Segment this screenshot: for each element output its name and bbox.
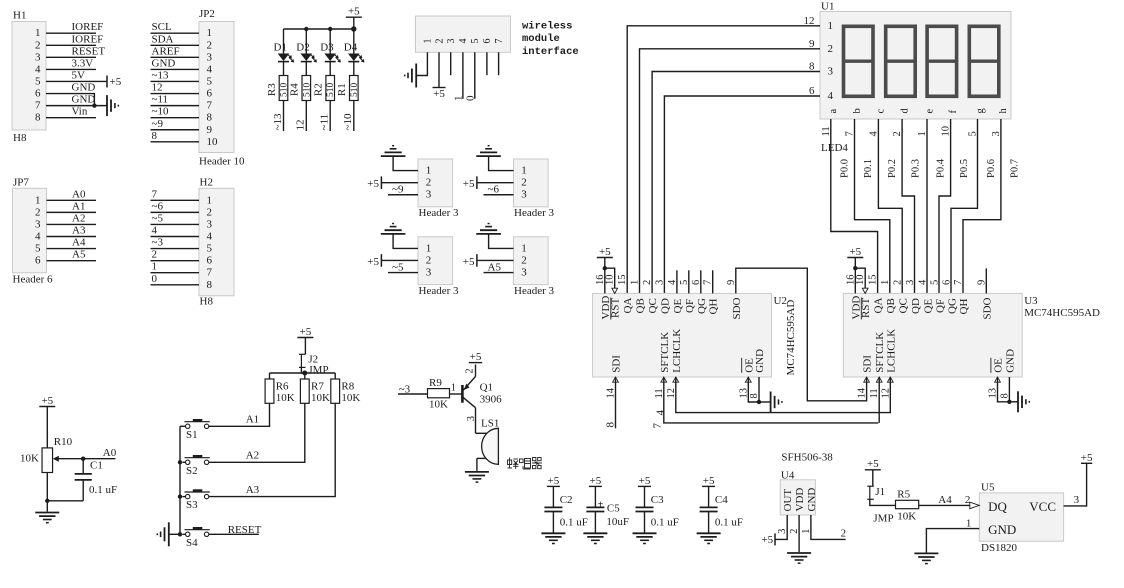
U2 pin number 6 [691,280,708,314]
svg-text:A0: A0 [103,447,117,459]
svg-text:2: 2 [426,177,432,189]
svg-text:0: 0 [152,273,158,285]
+5 supply at Header3 block 4 pin 2 [463,254,477,268]
JP7 pin 1 wire A0 [35,188,96,206]
H2 pin 3 wire ~5 [151,212,213,230]
+5 supply at U3 VDD [847,246,863,294]
svg-text:8: 8 [35,112,41,124]
resistor R8 10K [331,373,361,404]
svg-text:1: 1 [35,194,41,206]
svg-text:2: 2 [521,177,527,189]
svg-text:1: 1 [152,261,158,273]
svg-text:1: 1 [521,165,527,177]
svg-text:R5: R5 [897,489,910,501]
junction rail at S2 [178,460,182,464]
JP7 pin 4 wire A3 [35,225,96,243]
jumper J1 JMP [867,486,895,524]
resistor R9 10K [428,377,450,410]
svg-text:+5: +5 [639,475,651,487]
svg-text:JMP: JMP [308,364,328,376]
svg-text:JP7: JP7 [13,176,29,188]
svg-text:A3: A3 [72,225,86,237]
svg-text:9: 9 [809,38,815,50]
svg-text:module: module [522,33,560,45]
svg-text:10K: 10K [429,398,448,410]
U1 segment pin f number 10 wire net P0.5 [939,110,970,294]
svg-text:VDD: VDD [794,488,806,512]
H1 pin 2 wire IOREF [35,33,103,51]
svg-text:~5: ~5 [152,212,164,224]
U4 pin name GND [801,488,818,534]
svg-text:P0.3: P0.3 [911,159,922,178]
wire Header3 block 2 pin 1 [489,156,514,171]
+5 supply at C3 [638,475,651,507]
svg-text:DQ: DQ [988,499,1007,514]
H2 pin 8 wire 0 [151,273,213,291]
wireless module pin 4 [458,39,469,44]
junction LED bus at D2 [304,27,308,31]
wire net A3 [209,403,335,496]
svg-text:H2: H2 [200,176,213,188]
ground at Header3 block 2 pin 1 [476,146,501,156]
svg-text:5: 5 [35,75,41,87]
capacitor C4 0.1 uF [700,494,743,532]
JP2 pin 4 wire GND [151,57,213,75]
wire U2 OE and GND to ground [748,377,770,402]
ground at C5 [583,533,607,543]
svg-text:12: 12 [804,15,815,27]
svg-text:VCC: VCC [1029,499,1056,514]
svg-text:RST: RST [860,298,872,318]
H1 pin 6 wire GND [35,82,95,106]
U2 pin name SDO [726,280,743,320]
svg-text:3: 3 [35,218,41,230]
svg-text:2: 2 [35,206,41,218]
svg-text:P0.2: P0.2 [887,159,898,178]
wire net ~10 [342,101,354,132]
svg-text:1: 1 [207,194,213,206]
svg-text:QH: QH [708,299,720,315]
svg-text:+5: +5 [433,88,445,100]
wire net A0 [83,447,117,459]
svg-text:QG: QG [696,298,708,314]
svg-text:Header 10: Header 10 [199,156,245,168]
svg-text:~13: ~13 [152,69,169,81]
svg-text:Header 3: Header 3 [419,207,460,219]
U2 pin number 13 [738,358,755,399]
svg-text:OUT: OUT [782,489,794,512]
svg-text:3: 3 [1074,494,1080,506]
+5 supply at U5 VCC [1081,452,1093,464]
svg-text:2: 2 [465,368,476,373]
svg-text:6: 6 [482,39,493,44]
wire net ~11 [319,101,331,132]
svg-text:9: 9 [207,124,213,136]
svg-text:4: 4 [35,231,41,243]
wire U2 QF stub [688,270,690,293]
svg-text:QD: QD [910,298,922,314]
svg-text:QB: QB [885,298,897,313]
connector Header 3 block 2 [514,159,555,219]
svg-text:A4: A4 [938,494,952,506]
U3 pin number 10 [855,275,872,319]
svg-text:510: 510 [302,83,312,98]
U1 segment pin h number 3 wire net P0.7 [963,108,1020,294]
U2 pin number 1 [630,280,647,314]
svg-text:15: 15 [868,275,879,286]
svg-text:QF: QF [934,299,946,313]
wireless module pin 3 [446,39,457,44]
wire U2 RST to +5 [605,268,618,293]
U5 DQ pin number 2 [965,494,971,506]
svg-text:0.1 uF: 0.1 uF [89,484,117,496]
connector Header 3 block 3 [418,237,459,297]
svg-text:h: h [998,108,1009,114]
label wireless module interface [522,20,579,57]
H1 pin 4 wire 3.3V [35,57,96,75]
wire wireless pin 3 [450,52,452,75]
svg-text:MC74HC595AD: MC74HC595AD [1024,307,1100,319]
svg-text:8: 8 [809,61,815,73]
junction rail at S3 [178,494,182,498]
svg-text:1: 1 [426,165,432,177]
svg-text:SCL: SCL [152,21,172,33]
svg-text:+5: +5 [470,351,482,363]
svg-text:H8: H8 [200,296,214,308]
svg-text:3: 3 [654,280,665,285]
resistor R2 510 [313,76,337,101]
U1 pin 4 wire net 6 [664,85,833,293]
svg-text:SFTCLK: SFTCLK [659,332,671,373]
wire net RESET [209,524,262,536]
switch S2 [183,455,210,477]
wire U5 VCC to +5 [1064,463,1087,506]
svg-text:C3: C3 [651,494,664,506]
ground at H1 pin 7 [107,95,118,116]
svg-text:3: 3 [426,189,432,201]
wire U2 SDO to U3 SDI [736,268,867,401]
wire SFTCLK net 7 [652,377,880,429]
svg-text:QA: QA [622,298,634,314]
U3 pin number 2 [893,280,910,314]
svg-text:+: + [598,500,604,511]
connector H2 [199,176,234,307]
svg-text:A0: A0 [72,188,86,200]
svg-text:1: 1 [452,96,464,102]
svg-text:4: 4 [654,410,666,416]
U3 pin number 8 [999,349,1016,399]
U1 digit 2 [886,26,916,96]
svg-text:P0.1: P0.1 [863,159,874,178]
wire net ~13 [272,101,284,132]
label buzzer chinese [508,458,543,470]
svg-text:SDO: SDO [981,297,993,319]
wire U3 RST to +5 [855,268,868,293]
svg-text:1: 1 [451,383,456,394]
junction at U2 VDD [603,266,607,270]
svg-text:5: 5 [207,75,213,87]
svg-text:6: 6 [207,255,213,267]
JP2 pin 1 wire SCL [151,21,213,39]
svg-text:5V: 5V [72,69,86,81]
svg-text:C4: C4 [715,494,728,506]
svg-text:P0.5: P0.5 [959,159,970,178]
ground at C2 [541,533,565,543]
svg-text:3: 3 [426,267,432,279]
U4 pin name VDD [789,488,806,534]
svg-text:+5: +5 [348,6,360,18]
svg-text:10K: 10K [311,392,330,404]
svg-text:JP2: JP2 [199,8,215,20]
U3 pin name SDO [976,280,993,320]
capacitor C3 0.1 uF [636,494,679,532]
Q1 pin 1 wire [450,383,462,394]
resistor R7 10K [300,373,330,404]
svg-text:A1: A1 [72,200,85,212]
svg-text:6: 6 [207,88,213,100]
svg-text:A2: A2 [246,450,259,462]
svg-text:0.1 uF: 0.1 uF [715,517,743,529]
wire Header3 block 3 pin 2 [381,259,418,261]
svg-text:S2: S2 [186,465,198,477]
svg-text:3: 3 [521,267,527,279]
svg-text:R10: R10 [54,436,73,448]
svg-text:7: 7 [953,280,964,285]
svg-text:8: 8 [152,130,158,142]
svg-text:OE: OE [993,358,1005,373]
svg-text:8: 8 [207,279,213,291]
svg-text:+5: +5 [367,178,379,190]
capacitor C2 0.1 uF [544,494,587,532]
svg-text:4: 4 [207,231,213,243]
+5 supply at J1 [865,458,881,486]
U1 digit 4 [969,26,999,96]
svg-text:Header 6: Header 6 [13,274,54,286]
svg-text:7: 7 [35,100,41,112]
svg-text:RESET: RESET [72,45,106,57]
svg-text:QD: QD [659,298,671,314]
svg-text:2: 2 [521,254,527,266]
wire Header3 block 1 pin 3 net ~9 [388,184,418,196]
LED D3 [320,29,341,76]
svg-text:QE: QE [922,299,934,314]
svg-text:5: 5 [35,243,41,255]
svg-text:~13: ~13 [272,113,284,130]
jumper J2 JMP [299,354,329,377]
wire wireless pin 1 to ground [416,52,427,75]
wire U2 QG stub [700,270,702,293]
svg-text:12: 12 [152,82,163,94]
svg-text:GND: GND [754,349,766,373]
wire net A2 [209,403,305,462]
capacitor C1 0.1uF [47,459,117,501]
U3 pin number 15 [868,275,885,314]
H1 pin 7 wire GND [35,94,107,112]
connector Header 3 block 1 [418,159,459,219]
wire U2 QH stub [712,270,714,293]
+5 supply at wireless pin 2 [433,88,446,100]
+5 supply at H1 pin 5 [107,75,122,88]
wire U4 GND net 2 [811,515,846,540]
junction rail at S4 [178,532,182,536]
wire Header3 block 1 pin 1 [393,156,418,171]
svg-text:5: 5 [470,39,481,44]
svg-text:3: 3 [35,51,41,63]
resistor R5 10K [896,489,919,523]
+5 supply at C2 [547,475,560,507]
svg-text:Vin: Vin [72,106,88,118]
IC U5 DS1820 [979,482,1063,554]
+5 supply at C4 [702,475,715,507]
junction U3 GND [1007,400,1011,404]
wire Header3 block 3 pin 3 net ~5 [388,261,418,273]
svg-text:4: 4 [458,39,469,44]
svg-text:15: 15 [617,275,628,286]
ground at LS1 [465,472,489,482]
wireless module pin 7 [494,39,505,44]
wire Header3 block 3 pin 1 [393,234,418,249]
display U1 LED4 [820,1,1011,155]
wire U4 OUT to +5 [775,515,787,539]
svg-text:3: 3 [207,51,213,63]
svg-text:D2: D2 [296,42,309,54]
svg-text:LS1: LS1 [481,418,499,430]
svg-text:1: 1 [880,280,891,285]
LED D1 [274,29,295,76]
junction H1 GND [92,103,96,107]
svg-text:10K: 10K [341,392,360,404]
wire U2 SDI net 8 [604,377,616,428]
LED D2 [296,29,317,76]
svg-text:6: 6 [35,255,41,267]
svg-text:LCHCLK: LCHCLK [885,329,897,373]
+5 supply at R10 [39,395,55,448]
svg-text:510: 510 [350,83,360,98]
svg-text:RST: RST [610,298,622,318]
svg-text:IOREF: IOREF [72,21,104,33]
svg-text:5: 5 [207,243,213,255]
svg-text:7: 7 [207,267,213,279]
svg-text:+5: +5 [703,475,715,487]
svg-text:12: 12 [295,120,307,131]
U1 pin 1 wire net 12 [627,15,833,294]
svg-text:+5: +5 [599,246,611,258]
U2 pin number 11 [654,332,671,399]
svg-text:interface: interface [522,46,579,58]
svg-text:GND: GND [72,82,96,94]
svg-text:H1: H1 [13,10,26,22]
IC U2 MC74HC595AD [593,293,798,377]
svg-text:10K: 10K [897,511,916,523]
JP2 pin 8 wire ~10 [151,106,213,124]
svg-text:510: 510 [326,83,336,98]
IC U3 MC74HC595AD [843,293,1100,377]
U3 pin number 6 [941,280,958,314]
U5 DQ input arrow [970,502,980,509]
H2 pin 2 wire ~6 [151,200,213,218]
U3 pin number 12 [880,329,897,399]
svg-text:SDI: SDI [611,355,623,373]
svg-text:~9: ~9 [392,184,404,196]
svg-text:QC: QC [647,298,659,313]
svg-text:+5: +5 [463,256,475,268]
connector Header 3 block 4 [514,237,555,297]
svg-text:1: 1 [521,242,527,254]
svg-text:7: 7 [652,423,664,429]
svg-text:QE: QE [672,299,684,314]
junction at C1 top [81,457,85,461]
svg-text:2: 2 [841,528,847,540]
JP2 pin 10 wire 8 [151,130,219,148]
svg-text:+5: +5 [300,326,312,338]
wire Header3 block 4 pin 1 [489,234,514,249]
wire Header3 block 2 pin 2 [477,182,514,184]
H2 pin 1 wire 7 [151,188,213,206]
svg-text:R2: R2 [313,83,325,96]
svg-text:QC: QC [898,298,910,313]
svg-text:+5: +5 [548,475,560,487]
svg-text:+5: +5 [463,178,475,190]
svg-text:GND: GND [1004,349,1016,373]
svg-text:~3: ~3 [152,237,164,249]
svg-text:+5: +5 [110,76,122,88]
U3 pin number 3 [905,280,922,314]
wire Header3 block 4 pin 3 net A5 [484,261,514,273]
svg-text:3: 3 [446,39,457,44]
JP7 pin 6 wire A5 [35,249,96,267]
wire net ~3 [398,383,428,395]
wire U4 VDD to ground [798,515,800,552]
U3 pin number 4 [917,279,934,314]
svg-text:GND: GND [152,57,176,69]
svg-text:1: 1 [207,27,213,39]
svg-text:R9: R9 [429,377,442,389]
U3 pin number 1 [880,280,897,314]
svg-text:~9: ~9 [152,118,164,130]
svg-text:a: a [828,109,839,114]
svg-text:LED4: LED4 [821,142,848,154]
U1 segment pin a number 11 wire net P0.0 [821,109,878,294]
H1 pin 1 wire IOREF [35,21,103,39]
svg-text:4: 4 [828,90,834,102]
wireless module pin 2 [434,39,445,44]
svg-text:6: 6 [941,280,952,285]
wire R10 to ground [46,473,48,512]
svg-text:DS1820: DS1820 [981,542,1018,554]
+5 supply at Header3 block 3 pin 2 [367,254,381,268]
ground at wireless pin 1 [405,64,417,88]
potentiometer R10 10K [20,436,83,473]
wire Header3 block 4 pin 2 [477,259,514,261]
svg-text:R4: R4 [289,83,301,96]
svg-text:2: 2 [828,43,834,55]
wire resistor bus [270,372,336,374]
ground at Header3 block 4 pin 1 [476,224,501,234]
U1 segment pin d number 2 wire net P0.3 [892,108,922,294]
svg-text:4: 4 [152,225,158,237]
JP7 pin 3 wire A2 [35,212,96,230]
svg-text:QH: QH [958,299,970,315]
svg-text:~6: ~6 [488,184,500,196]
svg-text:3: 3 [207,218,213,230]
+5 supply at Header3 block 1 pin 2 [367,176,381,190]
svg-text:LCHCLK: LCHCLK [671,329,683,373]
ground at R10 [35,513,59,523]
junction LED bus at D3 [328,27,332,31]
junction U2 GND [757,400,761,404]
ground at S4 [157,522,180,546]
svg-text:10K: 10K [276,392,295,404]
